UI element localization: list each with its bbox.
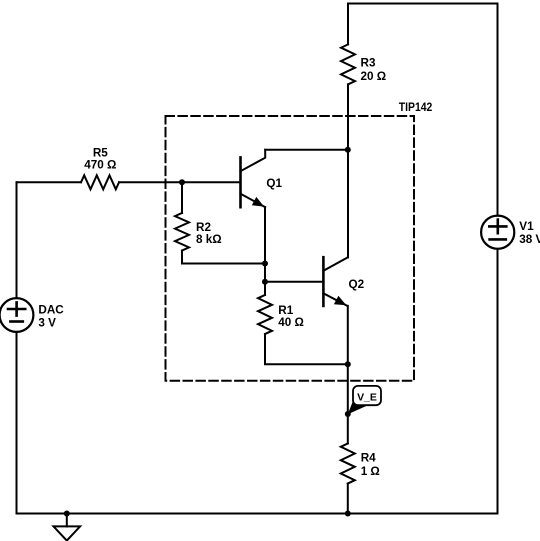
svg-text:V1: V1 bbox=[519, 220, 534, 233]
resistor R4 bbox=[341, 444, 355, 484]
svg-text:R3: R3 bbox=[361, 56, 376, 69]
node V_E probe point bbox=[345, 411, 351, 417]
svg-text:470 Ω: 470 Ω bbox=[84, 159, 116, 172]
wire R2 bottom lead bbox=[182, 251, 265, 264]
resistor R5 bbox=[81, 175, 119, 189]
wire R5 left lead bbox=[17, 181, 82, 183]
svg-text:3 V: 3 V bbox=[38, 316, 56, 329]
wire bottom rail bbox=[17, 513, 498, 515]
wire R5 right lead to Q1 base bbox=[119, 181, 240, 183]
wire rail R3 to Q2 collector bbox=[347, 84, 349, 257]
wire left rail upper bbox=[16, 182, 18, 298]
svg-text:TIP142: TIP142 bbox=[399, 101, 433, 114]
svg-text:DAC: DAC bbox=[38, 303, 64, 316]
wire top rail bbox=[348, 3, 498, 5]
svg-text:Q1: Q1 bbox=[266, 177, 282, 190]
transistor Q1 bbox=[241, 150, 266, 207]
voltage source DAC bbox=[0, 298, 33, 332]
dashed box TIP142 bbox=[166, 116, 415, 381]
wire Q2 emitter down to R4 bbox=[347, 306, 349, 444]
wire main collector rail top segment bbox=[347, 4, 349, 45]
resistor R1 bbox=[258, 295, 272, 334]
node junction R4 bottom / bottom rail bbox=[345, 511, 351, 517]
wire Q1 emitter down bbox=[264, 207, 266, 282]
node junction R1 bottom / Q2 emitter bbox=[345, 361, 351, 367]
wire left rail lower bbox=[16, 332, 18, 514]
svg-text:V_E: V_E bbox=[357, 392, 377, 404]
svg-text:20 Ω: 20 Ω bbox=[361, 70, 387, 83]
voltage source V1 bbox=[481, 216, 514, 249]
wire Q2 base bbox=[265, 281, 323, 283]
node junction Q1 collector / rail bbox=[345, 147, 351, 153]
node junction Q2 base / R1 top bbox=[262, 279, 268, 285]
resistor R2 bbox=[175, 213, 189, 251]
wire R1 bottom lead bbox=[265, 334, 348, 364]
node junction ground bbox=[64, 511, 70, 517]
transistor Q2 bbox=[323, 257, 347, 306]
svg-text:R1: R1 bbox=[278, 304, 293, 317]
wire right rail upper bbox=[497, 4, 499, 216]
wire R2 top lead bbox=[181, 182, 183, 213]
wire Q1 collector to rail bbox=[265, 149, 348, 151]
svg-text:38 V: 38 V bbox=[519, 233, 540, 246]
svg-text:40 Ω: 40 Ω bbox=[278, 316, 304, 329]
svg-text:R5: R5 bbox=[93, 146, 108, 159]
svg-text:1 Ω: 1 Ω bbox=[361, 465, 380, 478]
svg-text:Q2: Q2 bbox=[349, 278, 365, 291]
node junction R2 bottom / Q1 emitter bbox=[262, 261, 268, 267]
svg-text:8 kΩ: 8 kΩ bbox=[196, 233, 222, 246]
ground bbox=[54, 514, 81, 541]
wire R1 top lead bbox=[264, 282, 266, 295]
svg-text:R4: R4 bbox=[361, 451, 376, 464]
resistor R3 bbox=[341, 44, 355, 84]
node junction R5/R2/base bbox=[179, 179, 185, 185]
svg-text:R2: R2 bbox=[196, 221, 211, 234]
wire R4 bottom lead bbox=[347, 484, 349, 514]
label V_E flag bbox=[348, 386, 381, 414]
wire right rail lower bbox=[497, 249, 499, 514]
